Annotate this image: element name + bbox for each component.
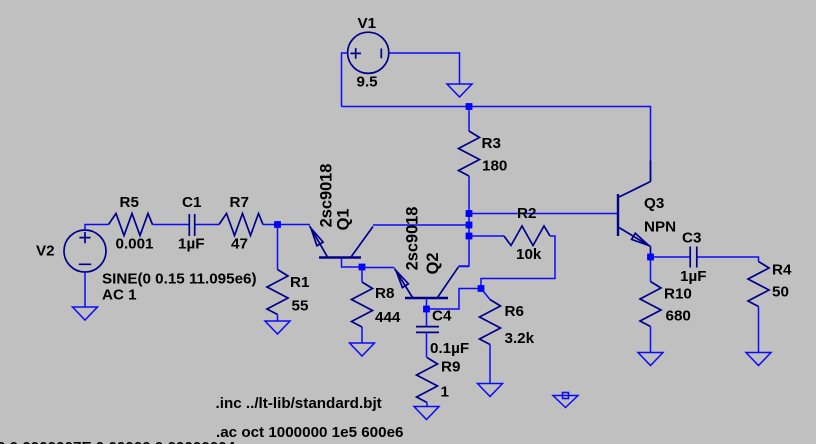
svg-text:V1: V1 (358, 15, 377, 32)
ground at V1 (447, 84, 472, 97)
svg-text:Q2: Q2 (424, 253, 442, 275)
node junction R6 top (478, 285, 485, 292)
resistor R4 (748, 262, 769, 307)
svg-text:444: 444 (375, 309, 401, 326)
ground at R4 (746, 353, 771, 366)
wire to R6 (481, 289, 490, 300)
svg-text:1µF: 1µF (680, 268, 706, 285)
svg-text:680: 680 (666, 308, 691, 325)
wire C1 to R7 (196, 224, 220, 226)
wire Q2 collector to center column (459, 266, 470, 268)
svg-text:0.001: 0.001 (116, 236, 155, 253)
svg-text:10k: 10k (516, 246, 542, 263)
transistor Q1 (310, 226, 374, 258)
svg-text:R2: R2 (517, 205, 536, 222)
ground at R8 (350, 343, 375, 356)
node junction Q3 emitter (647, 254, 654, 261)
wire C3 to R4 (698, 257, 759, 262)
svg-text:55: 55 (292, 298, 309, 315)
wire Q1 collector (373, 224, 469, 226)
wire Q2 base stub (426, 298, 428, 309)
svg-text:NPN: NPN (644, 218, 676, 235)
svg-text:0.1µF: 0.1µF (430, 340, 469, 357)
svg-text:C1: C1 (182, 194, 202, 211)
resistor R6 (480, 300, 501, 345)
svg-text:Q3: Q3 (644, 195, 664, 212)
resistor R1 (277, 225, 279, 322)
ground at R10 (638, 353, 663, 366)
svg-text:47: 47 (231, 236, 248, 253)
node junction Q1 collector (466, 222, 473, 229)
wire Q1 base node to Q2 emitter (362, 267, 395, 269)
capacitor C1 (189, 214, 194, 236)
svg-text:R6: R6 (505, 303, 524, 320)
wire top rail (342, 107, 651, 182)
node junction R2 left (466, 233, 473, 240)
node junction C4 / Q2 base (423, 306, 430, 313)
node junction input (274, 221, 281, 228)
capacitor C4 (426, 309, 428, 358)
resistor R7 (219, 214, 263, 236)
floating ground with port marker (553, 393, 578, 408)
svg-text:R4: R4 (772, 262, 792, 279)
svg-text:R5: R5 (120, 194, 140, 211)
wire V2 top (85, 225, 109, 231)
wire V1 minus to ground (389, 53, 460, 84)
resistor R3 (459, 107, 470, 267)
ground at R9 (414, 407, 439, 420)
svg-text:R3: R3 (482, 135, 501, 152)
svg-text:C4: C4 (432, 308, 452, 325)
voltage source V2 (64, 230, 106, 272)
wire R7 to node (263, 224, 278, 226)
ground at V2 (73, 307, 98, 320)
svg-text:2sc9018: 2sc9018 (404, 207, 422, 271)
wire Q1 emitter to input node (278, 224, 311, 226)
transistor Q3 (618, 161, 651, 258)
svg-text:C3: C3 (682, 229, 701, 246)
wire Q1 base (342, 258, 363, 268)
resistor R10 (650, 257, 652, 353)
svg-text:1: 1 (441, 383, 450, 400)
svg-text:3.2k: 3.2k (505, 330, 535, 347)
svg-text:R9: R9 (441, 358, 460, 375)
ground at R6 (478, 384, 503, 397)
resistor R8 (361, 267, 363, 343)
svg-text:9.5: 9.5 (357, 73, 379, 90)
svg-text:SINE(0 0.15 11.095e6): SINE(0 0.15 11.095e6) (102, 270, 257, 287)
wire R2 node to R6 and C4 (427, 289, 482, 310)
svg-text:R8: R8 (375, 285, 394, 302)
svg-text:R10: R10 (664, 286, 692, 303)
wire Q3 emitter to C3 (651, 256, 690, 258)
svg-text:180: 180 (482, 158, 507, 175)
svg-text:50: 50 (772, 284, 789, 301)
capacitor C3 (690, 247, 697, 268)
svg-text:Q1: Q1 (335, 209, 353, 231)
ground at R1 (265, 321, 290, 334)
node junction Q1 base / R8 (359, 264, 366, 271)
resistor R2 (469, 235, 504, 237)
transistor Q2 (395, 267, 459, 298)
wire V2 bottom (84, 272, 86, 307)
resistor R9 (417, 358, 438, 403)
svg-text:0 0.0000007E 0.00000 0.0000000: 0 0.0000007E 0.00000 0.00000004 (0, 439, 236, 444)
node junction R3 bottom / Q3 base (466, 210, 473, 217)
wire V1 plus to bottom rail (342, 53, 348, 107)
node junction top rail (466, 103, 473, 110)
svg-text:AC 1: AC 1 (102, 286, 137, 303)
svg-text:V2: V2 (36, 242, 55, 259)
svg-text:2sc9018: 2sc9018 (317, 164, 335, 228)
svg-text:.inc ../lt-lib/standard.bjt: .inc ../lt-lib/standard.bjt (216, 395, 382, 412)
voltage source V1 (348, 32, 389, 73)
wire Q3 base (469, 213, 618, 215)
resistor R5 (109, 214, 153, 236)
svg-text:.ac oct 1000000 1e5 600e6: .ac oct 1000000 1e5 600e6 (216, 424, 403, 441)
wire R5 to C1 (153, 224, 189, 226)
svg-text:R7: R7 (230, 194, 249, 211)
svg-text:1µF: 1µF (178, 236, 204, 253)
svg-text:R1: R1 (290, 274, 310, 291)
